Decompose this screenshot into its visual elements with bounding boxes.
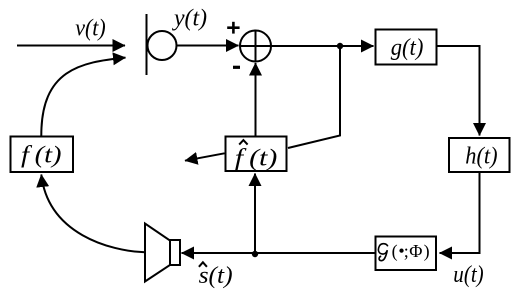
wire: input signal arrow into microphone — [17, 45, 125, 47]
block h(t) — [449, 138, 510, 172]
microphone — [147, 14, 177, 75]
wire: curved path f(t) to microphone — [41, 58, 125, 136]
arrow: f-hat block output to the left — [185, 153, 225, 160]
label s-hat(t) — [199, 262, 233, 289]
block g(t) — [376, 30, 437, 65]
svg-text:f (t): f (t) — [235, 146, 278, 172]
wire: curved path loudspeaker to f(t) — [41, 175, 145, 253]
label minus sign — [233, 66, 240, 69]
block f(t) — [11, 137, 74, 173]
wire: g(t) to h(t) — [438, 46, 480, 136]
svg-text:g(t): g(t) — [391, 35, 424, 61]
block G(.;Phi) — [376, 237, 437, 271]
wire: microphone to summing junction — [176, 45, 239, 47]
wire: pickoff dot up to f-hat block — [254, 174, 256, 254]
svg-text:h(t): h(t) — [465, 143, 497, 169]
summing junction — [240, 31, 271, 62]
svg-text:u(t): u(t) — [453, 262, 483, 288]
wire: summing junction to g(t) — [271, 45, 374, 47]
block f-hat(t) — [226, 137, 287, 172]
svg-text:v(t): v(t) — [75, 16, 106, 42]
wire: h(t) to G block — [440, 173, 480, 253]
svg-text:(•;Φ): (•;Φ) — [392, 241, 430, 262]
loudspeaker — [145, 224, 180, 282]
script G glyph — [378, 244, 387, 261]
svg-text:y(t): y(t) — [172, 6, 207, 32]
svg-text:f (t): f (t) — [21, 143, 62, 169]
node: pickoff dot on speaker feed — [252, 251, 258, 257]
wire: G block to loudspeaker — [182, 252, 375, 254]
node: pickoff dot on summer output — [337, 43, 343, 49]
wire: f-hat block up to summing junction (minus input) — [255, 63, 257, 136]
svg-text:s(t): s(t) — [199, 263, 233, 289]
label plus sign — [227, 22, 239, 34]
wire: pickoff node down and diagonal into f-hat block — [288, 46, 340, 148]
